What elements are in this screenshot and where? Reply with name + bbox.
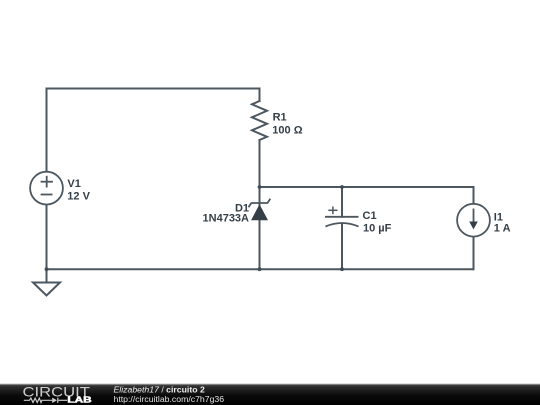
- svg-text:12 V: 12 V: [67, 191, 90, 203]
- svg-text:LAB: LAB: [67, 396, 92, 405]
- svg-text:http://circuitlab.com/c7h7g36: http://circuitlab.com/c7h7g36: [114, 394, 225, 404]
- svg-text:V1: V1: [67, 178, 80, 190]
- svg-text:10 µF: 10 µF: [363, 223, 392, 235]
- svg-text:1 A: 1 A: [494, 222, 511, 234]
- svg-text:C1: C1: [363, 210, 377, 222]
- svg-text:1N4733A: 1N4733A: [203, 213, 250, 225]
- svg-text:100 Ω: 100 Ω: [272, 124, 302, 136]
- svg-text:R1: R1: [273, 112, 287, 124]
